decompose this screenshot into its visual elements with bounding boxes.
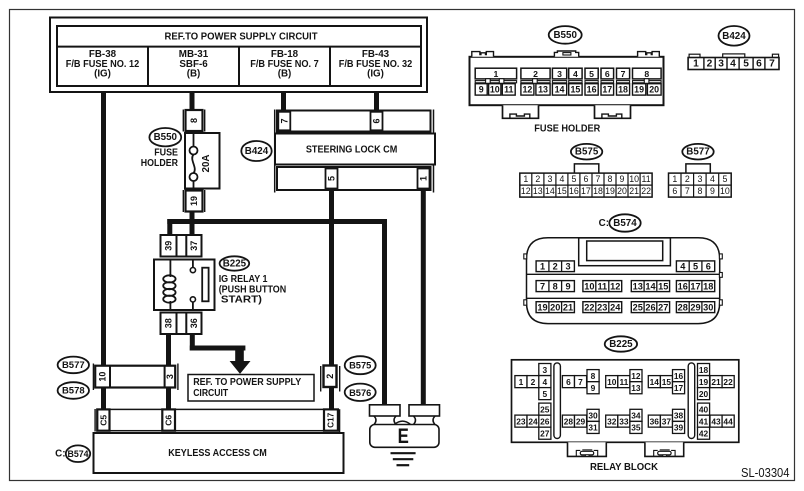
svg-text:11: 11 (504, 85, 513, 95)
svg-text:5: 5 (743, 58, 749, 69)
wire pin 5 through pin 2 to C17 (329, 190, 334, 409)
svg-text:B577: B577 (686, 147, 710, 158)
svg-text:B424: B424 (722, 31, 746, 42)
svg-text:10: 10 (720, 186, 730, 196)
B225 pins 32 33 with 34 35 column (606, 409, 642, 433)
B225 pins 23 24 with 25 26 27 column (515, 403, 551, 439)
relay IG RELAY 1 body U B225 (154, 260, 215, 311)
svg-text:15: 15 (570, 85, 580, 95)
svg-text:28: 28 (564, 416, 574, 426)
oval B550 label (view) (549, 26, 582, 44)
label IG RELAY 1 (PUSH BUTTON START) (219, 274, 287, 306)
B225 pins 1 2 with 3 4 5 column (515, 364, 551, 400)
svg-text:18: 18 (703, 281, 713, 291)
connector view B577 pins 1-10 (669, 164, 732, 197)
svg-text:8: 8 (608, 174, 613, 184)
svg-text:5: 5 (589, 69, 594, 79)
wire pin 38 to pin 3 (166, 334, 171, 366)
svg-text:18: 18 (699, 365, 709, 375)
B225 pins 6 7 with 8 9 column (562, 370, 599, 394)
svg-text:12: 12 (610, 281, 620, 291)
connector view B225 relay block box (512, 360, 739, 443)
svg-text:18: 18 (593, 186, 603, 196)
label FUSE HOLDER (141, 148, 179, 170)
svg-text:B578: B578 (62, 386, 85, 397)
svg-text:9: 9 (620, 174, 625, 184)
svg-text:C6: C6 (164, 415, 174, 426)
svg-text:(IG): (IG) (367, 69, 384, 80)
node junction bus wire (167, 219, 387, 224)
oval B578 label (58, 382, 89, 399)
svg-text:7: 7 (540, 281, 545, 291)
svg-text:38: 38 (163, 318, 173, 328)
label FUSE HOLDER (view) (534, 122, 600, 134)
oval B424 label (241, 141, 271, 161)
svg-text:2: 2 (325, 374, 335, 379)
svg-text:8: 8 (591, 371, 596, 381)
svg-text:B576: B576 (349, 388, 371, 398)
B574 pins 1 2 3 (536, 261, 574, 272)
B225 pins 40 41 42 column with 43 44 (698, 403, 735, 439)
svg-text:(B): (B) (278, 69, 292, 80)
oval B550 label (149, 128, 181, 146)
svg-text:1: 1 (693, 58, 699, 69)
svg-text:6: 6 (372, 118, 382, 123)
svg-text:7: 7 (685, 186, 690, 196)
svg-text:B424: B424 (245, 146, 269, 157)
cell FB-43 fuse no.32 (339, 49, 413, 80)
svg-text:4: 4 (680, 262, 686, 272)
B574 pins 7 8 9 (536, 281, 574, 292)
svg-text:START): START) (221, 295, 262, 306)
svg-text:27: 27 (658, 302, 668, 312)
connector row B577/B578 pins 10,3 (93, 364, 177, 391)
svg-text:32: 32 (607, 416, 617, 426)
svg-text:C:: C: (599, 218, 609, 229)
svg-text:3: 3 (565, 262, 570, 272)
B550 fuse row cells 1-8 (475, 68, 661, 83)
svg-text:7: 7 (769, 58, 775, 69)
B225 pins 18 19 20 column with 21 22 (698, 364, 735, 400)
svg-text:2: 2 (533, 69, 538, 79)
wire junction bus to ground (382, 219, 387, 406)
svg-text:1: 1 (519, 377, 524, 387)
B225 bottom mounting tabs with screws (568, 442, 684, 456)
oval B424 label (view) (719, 26, 750, 46)
svg-text:38: 38 (674, 411, 684, 421)
svg-text:1: 1 (540, 262, 545, 272)
wire pin 1 to ground (421, 190, 426, 406)
svg-text:B550: B550 (553, 30, 577, 41)
svg-text:2: 2 (685, 174, 690, 184)
svg-text:C5: C5 (98, 415, 108, 426)
svg-text:16: 16 (569, 186, 579, 196)
relay coil (163, 260, 175, 311)
svg-text:B550: B550 (154, 132, 178, 143)
wire MB-31 to pin 8 (190, 92, 195, 111)
svg-text:29: 29 (576, 416, 586, 426)
B550 pin row cells 9-20 (475, 84, 661, 95)
wire junction down to pin 39 (167, 219, 172, 236)
B225 pins 14 15 with 16 17 column (648, 370, 684, 394)
svg-text:18: 18 (618, 85, 628, 95)
wire pin 36 elbow to arrow (190, 334, 246, 351)
svg-text:40: 40 (699, 404, 709, 414)
svg-text:10: 10 (629, 174, 639, 184)
svg-text:39: 39 (163, 241, 173, 251)
svg-text:16: 16 (678, 281, 688, 291)
svg-text:(PUSH BUTTON: (PUSH BUTTON (219, 284, 287, 295)
steering lock CM top connector pins 7,6 (275, 110, 434, 193)
cell FB-38 fuse no.12 (66, 49, 140, 80)
svg-text:26: 26 (645, 302, 655, 312)
svg-text:13: 13 (538, 85, 548, 95)
svg-text:27: 27 (540, 429, 550, 439)
svg-text:35: 35 (631, 423, 641, 433)
svg-text:30: 30 (703, 302, 713, 312)
svg-text:B575: B575 (575, 147, 599, 158)
steering lock CM body (275, 134, 435, 165)
svg-text:9: 9 (565, 281, 570, 291)
svg-text:15: 15 (658, 281, 668, 291)
svg-text:4: 4 (710, 174, 715, 184)
svg-text:9: 9 (591, 383, 596, 393)
svg-text:15: 15 (662, 377, 672, 387)
svg-text:5: 5 (542, 389, 547, 399)
svg-text:3: 3 (165, 374, 175, 379)
svg-text:1: 1 (493, 69, 498, 79)
svg-text:2: 2 (553, 262, 558, 272)
oval C:B574 label (55, 445, 90, 462)
svg-text:19: 19 (634, 85, 644, 95)
svg-text:17: 17 (674, 383, 684, 393)
relay contact (190, 260, 208, 311)
B550 bottom mounting tabs (503, 105, 631, 118)
svg-text:3: 3 (697, 174, 702, 184)
svg-text:43: 43 (711, 416, 721, 426)
arrow to ref power supply circuit (230, 350, 251, 374)
svg-text:B577: B577 (62, 360, 85, 371)
svg-text:6: 6 (566, 377, 571, 387)
svg-text:10: 10 (490, 85, 500, 95)
wire pin 3 to C6 (166, 387, 171, 410)
connector view B574 outline (524, 238, 723, 324)
svg-text:21: 21 (563, 302, 573, 312)
svg-text:20: 20 (550, 302, 560, 312)
svg-text:25: 25 (633, 302, 643, 312)
svg-text:10: 10 (607, 377, 617, 387)
svg-text:23: 23 (516, 416, 526, 426)
svg-text:7: 7 (596, 174, 601, 184)
svg-text:9: 9 (479, 85, 484, 95)
svg-text:20: 20 (649, 85, 659, 95)
oval B575 label (view) (571, 144, 602, 160)
svg-text:(IG): (IG) (94, 69, 111, 80)
svg-text:26: 26 (540, 417, 550, 427)
svg-text:23: 23 (597, 302, 607, 312)
svg-text:21: 21 (629, 186, 639, 196)
svg-text:16: 16 (674, 371, 684, 381)
svg-text:11: 11 (619, 377, 628, 387)
svg-text:6: 6 (605, 69, 610, 79)
svg-text:4: 4 (573, 69, 578, 79)
svg-text:44: 44 (723, 416, 733, 426)
svg-text:37: 37 (662, 416, 672, 426)
svg-text:IG RELAY 1: IG RELAY 1 (219, 274, 268, 285)
svg-text:KEYLESS ACCESS CM: KEYLESS ACCESS CM (168, 448, 267, 459)
wire FB-43 to pin 6 (374, 92, 379, 111)
oval B577 label (view) (682, 144, 713, 160)
svg-text:8: 8 (189, 118, 199, 123)
svg-text:14: 14 (650, 377, 660, 387)
svg-text:3: 3 (718, 58, 724, 69)
B574 pins 19 20 21 (536, 302, 574, 313)
svg-text:33: 33 (619, 416, 629, 426)
svg-text:CIRCUIT: CIRCUIT (193, 388, 228, 399)
svg-text:10: 10 (584, 281, 594, 291)
svg-text:36: 36 (189, 318, 199, 328)
wire FB-18 to pin 7 (281, 92, 286, 111)
B574 pins 10 11 12 (583, 281, 622, 292)
B574 pins 4 5 6 (676, 261, 714, 272)
connector view B550 fuse holder body (470, 51, 664, 105)
svg-text:RELAY BLOCK: RELAY BLOCK (590, 461, 658, 473)
svg-text:2: 2 (535, 174, 540, 184)
svg-text:7: 7 (578, 377, 583, 387)
svg-text:15: 15 (557, 186, 567, 196)
B574 pins 25 26 27 (631, 302, 669, 313)
svg-text:6: 6 (583, 174, 588, 184)
svg-text:8: 8 (644, 69, 649, 79)
svg-text:14: 14 (545, 186, 555, 196)
wire pin 10 to C5 (101, 387, 106, 410)
svg-text:1: 1 (523, 174, 528, 184)
svg-text:30: 30 (588, 411, 598, 421)
oval C:B574 label (view) (599, 214, 641, 231)
svg-text:5: 5 (327, 176, 337, 181)
svg-text:2: 2 (531, 377, 536, 387)
svg-text:B225: B225 (223, 259, 247, 270)
svg-text:13: 13 (533, 186, 543, 196)
svg-text:41: 41 (699, 417, 709, 427)
connector view B575 pins 1-22 (520, 164, 652, 197)
svg-text:19: 19 (605, 186, 615, 196)
wire pin 19 through junction to pin 37 (190, 212, 195, 237)
svg-text:C:: C: (55, 449, 65, 460)
svg-text:5: 5 (722, 174, 727, 184)
svg-text:5: 5 (693, 262, 698, 272)
svg-text:5: 5 (571, 174, 576, 184)
svg-text:(B): (B) (187, 69, 201, 80)
svg-text:6: 6 (706, 262, 711, 272)
svg-text:34: 34 (631, 411, 641, 421)
svg-text:SL-03304: SL-03304 (741, 466, 790, 480)
svg-text:12: 12 (631, 371, 641, 381)
relay bottom connector pins 38,36 (161, 313, 202, 335)
svg-text:25: 25 (540, 404, 550, 414)
svg-text:24: 24 (610, 302, 621, 312)
svg-text:11: 11 (642, 174, 651, 184)
svg-text:17: 17 (602, 85, 612, 95)
svg-text:17: 17 (690, 281, 700, 291)
svg-text:20A: 20A (201, 155, 212, 173)
svg-text:8: 8 (553, 281, 558, 291)
oval B225 label (relay) (220, 256, 250, 270)
svg-text:3: 3 (557, 69, 562, 79)
svg-text:29: 29 (690, 302, 700, 312)
connector pin 8 of B550 (183, 110, 204, 132)
svg-text:19: 19 (699, 377, 709, 387)
svg-text:22: 22 (584, 302, 594, 312)
svg-text:8: 8 (697, 186, 702, 196)
svg-text:13: 13 (633, 281, 643, 291)
label SL-03304 (741, 466, 790, 480)
connector pin 19 of B550 (183, 190, 204, 212)
keyless access CM connector row C5 C6 C17 (95, 409, 340, 433)
svg-text:REF. TO POWER SUPPLY: REF. TO POWER SUPPLY (193, 377, 301, 388)
svg-text:11: 11 (597, 281, 607, 291)
fuse 20A in fuse holder B550 (185, 133, 220, 189)
oval B225 label (view) (605, 336, 637, 351)
relay top connector pins 39,37 (161, 235, 202, 257)
svg-text:3: 3 (542, 365, 547, 375)
svg-text:10: 10 (98, 372, 108, 382)
svg-text:4: 4 (542, 377, 547, 387)
svg-text:REF.TO POWER SUPPLY CIRCUIT: REF.TO POWER SUPPLY CIRCUIT (165, 31, 318, 42)
svg-text:1: 1 (419, 176, 429, 181)
svg-text:7: 7 (621, 69, 626, 79)
ref to power supply circuit source box (50, 18, 427, 93)
svg-text:28: 28 (678, 302, 688, 312)
svg-text:16: 16 (587, 85, 597, 95)
svg-text:14: 14 (555, 85, 565, 95)
B225 right rail (688, 363, 695, 439)
svg-text:20: 20 (617, 186, 627, 196)
svg-text:HOLDER: HOLDER (141, 158, 178, 169)
B574 pins 22 23 24 (583, 302, 622, 313)
svg-text:E: E (398, 425, 409, 448)
B574 pins 13 14 15 (631, 281, 669, 292)
svg-text:B225: B225 (609, 339, 633, 350)
connector pin 2 (B575/B576) (321, 366, 340, 392)
svg-text:1: 1 (672, 174, 677, 184)
cell FB-18 fuse no.7 (250, 49, 319, 80)
svg-text:B574: B574 (67, 449, 88, 459)
connector view B424 pins 1-7 (688, 54, 779, 70)
svg-text:9: 9 (710, 186, 715, 196)
svg-text:20: 20 (699, 389, 709, 399)
svg-text:3: 3 (547, 174, 552, 184)
svg-text:2: 2 (707, 58, 713, 69)
svg-text:C17: C17 (327, 412, 336, 427)
B225 left rail (554, 363, 561, 439)
oval B576 label (345, 384, 376, 401)
svg-text:22: 22 (723, 377, 733, 387)
svg-text:7: 7 (279, 118, 289, 123)
ref to power supply circuit destination box (188, 375, 314, 402)
ground E (370, 405, 440, 465)
steering lock CM bottom connector pins 5,1 (277, 167, 431, 190)
oval B575 label (345, 356, 376, 374)
svg-text:6: 6 (672, 186, 677, 196)
svg-text:19: 19 (189, 196, 199, 206)
svg-text:21: 21 (711, 377, 721, 387)
B574 pins 28 29 30 (676, 302, 714, 313)
cell MB-31 SBF-6 (179, 49, 209, 80)
svg-text:42: 42 (699, 429, 709, 439)
svg-text:39: 39 (674, 423, 684, 433)
svg-text:6: 6 (756, 58, 762, 69)
label RELAY BLOCK (590, 461, 658, 473)
svg-text:31: 31 (588, 423, 598, 433)
svg-text:4: 4 (559, 174, 564, 184)
svg-text:24: 24 (528, 416, 538, 426)
oval B577 label (58, 357, 89, 374)
svg-text:14: 14 (645, 281, 656, 291)
keyless access CM body (94, 433, 344, 473)
svg-text:FUSE HOLDER: FUSE HOLDER (534, 122, 600, 134)
svg-text:B574: B574 (613, 218, 637, 229)
svg-text:17: 17 (581, 186, 591, 196)
B225 pins 10 11 with 12 13 column (606, 370, 642, 394)
svg-text:13: 13 (631, 383, 641, 393)
svg-text:19: 19 (537, 302, 547, 312)
svg-text:FUSE: FUSE (154, 148, 178, 159)
B225 pins 28 29 with 30 31 column (562, 409, 599, 433)
svg-text:12: 12 (521, 186, 531, 196)
svg-text:4: 4 (730, 58, 736, 69)
svg-text:22: 22 (641, 186, 651, 196)
svg-text:12: 12 (522, 85, 532, 95)
svg-text:STEERING LOCK CM: STEERING LOCK CM (306, 144, 398, 155)
wire FB-38 to pin 10 (101, 92, 106, 366)
svg-text:36: 36 (650, 416, 660, 426)
svg-text:37: 37 (189, 241, 199, 251)
svg-text:B575: B575 (349, 361, 371, 371)
B574 pins 16 17 18 (676, 281, 714, 292)
B225 pins 36 37 with 38 39 column (648, 409, 684, 433)
